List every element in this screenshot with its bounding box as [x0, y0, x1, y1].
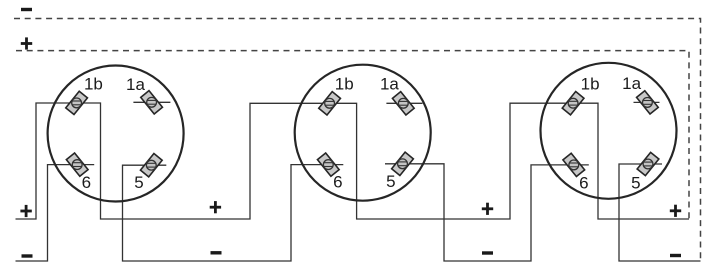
svg-text:1a: 1a — [126, 75, 145, 94]
svg-text:5: 5 — [386, 172, 395, 191]
svg-text:6: 6 — [579, 174, 588, 193]
svg-text:5: 5 — [631, 174, 640, 193]
svg-text:1b: 1b — [581, 75, 600, 94]
svg-text:1a: 1a — [622, 74, 641, 93]
svg-text:1a: 1a — [380, 75, 399, 94]
svg-text:1b: 1b — [335, 75, 354, 94]
svg-text:6: 6 — [333, 173, 342, 192]
svg-text:6: 6 — [82, 173, 91, 192]
svg-text:1b: 1b — [84, 75, 103, 94]
svg-text:5: 5 — [134, 173, 143, 192]
